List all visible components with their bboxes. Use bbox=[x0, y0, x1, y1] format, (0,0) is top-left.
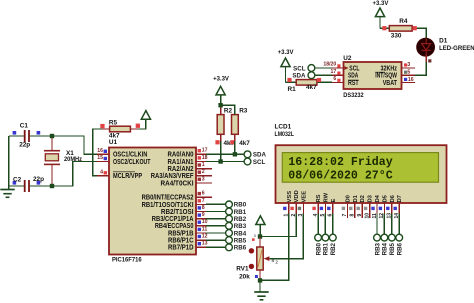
node: R3/SDA junction bbox=[233, 152, 237, 156]
svg-text:17: 17 bbox=[331, 69, 337, 75]
svg-text:08/06/2020 27°C: 08/06/2020 27°C bbox=[288, 170, 392, 183]
svg-text:D0: D0 bbox=[345, 195, 351, 202]
svg-text:10: 10 bbox=[202, 219, 208, 225]
pin 1 RA2/AN2 bbox=[168, 162, 213, 173]
ground (pot) bbox=[254, 292, 268, 300]
svg-text:4: 4 bbox=[100, 169, 103, 175]
svg-text:VSS: VSS bbox=[287, 191, 293, 203]
pin 6 label (U2 RST) bbox=[333, 76, 340, 82]
LCD pin names (rotated) bbox=[287, 190, 403, 202]
svg-text:RB5: RB5 bbox=[389, 242, 396, 255]
terminal SCL (DS3232) bbox=[293, 65, 315, 73]
RTC chip U2 DS3232 bbox=[343, 55, 401, 99]
svg-text:MCLR/VPP: MCLR/VPP bbox=[113, 173, 142, 180]
svg-text:RA2/AN2: RA2/AN2 bbox=[168, 166, 194, 173]
svg-text:RB2: RB2 bbox=[234, 216, 247, 223]
svg-text:RB0: RB0 bbox=[234, 202, 247, 209]
power +3.3V arrow (R2/R3) bbox=[213, 77, 229, 106]
power +3.3V arrow (DS3232 area) bbox=[278, 50, 294, 82]
svg-text:RB6/P1C: RB6/P1C bbox=[168, 238, 194, 245]
svg-text:RB4: RB4 bbox=[382, 242, 389, 255]
svg-text:LM032L: LM032L bbox=[275, 131, 295, 138]
terminal RB5 (PIC) bbox=[226, 237, 247, 245]
capacitor C2 bbox=[9, 176, 52, 192]
LED D1 LED-GREEN bbox=[417, 37, 474, 62]
svg-text:32KHz: 32KHz bbox=[381, 65, 398, 72]
svg-text:RB6: RB6 bbox=[397, 242, 404, 255]
svg-text:U1: U1 bbox=[109, 139, 118, 146]
svg-text:RB3: RB3 bbox=[234, 223, 247, 230]
terminal RB2 (PIC) bbox=[226, 215, 247, 223]
svg-text:7: 7 bbox=[202, 198, 205, 204]
node: R2/SCL junction bbox=[218, 159, 222, 163]
node: pot top junction bbox=[258, 234, 262, 238]
wire: R5 left to MCLR pin4 bbox=[93, 129, 102, 176]
wire: SDA terminal to U2 bbox=[315, 74, 332, 76]
svg-text:SCL: SCL bbox=[253, 159, 266, 166]
svg-text:DS3232: DS3232 bbox=[343, 92, 364, 99]
svg-text:VBAT: VBAT bbox=[383, 80, 398, 87]
terminal RB6 (PIC) bbox=[226, 244, 247, 252]
svg-text:RB5: RB5 bbox=[234, 237, 247, 244]
svg-text:1: 1 bbox=[202, 162, 205, 168]
svg-text:R3: R3 bbox=[239, 107, 248, 114]
svg-text:16:28:02 Friday: 16:28:02 Friday bbox=[288, 156, 392, 169]
svg-text:SDA: SDA bbox=[253, 152, 267, 159]
wire: R5 right to +3.3V arrow bbox=[138, 119, 146, 129]
svg-text:3: 3 bbox=[407, 62, 410, 68]
terminal RB5 (LCD D6) bbox=[388, 234, 396, 255]
svg-text:7: 7 bbox=[342, 214, 348, 217]
svg-text:D4: D4 bbox=[375, 194, 381, 202]
svg-text:6: 6 bbox=[202, 191, 205, 197]
pin 16 VBAT stub bbox=[402, 77, 416, 83]
svg-text:9: 9 bbox=[202, 212, 205, 218]
wire: pin18 to SCL terminal bbox=[206, 161, 244, 163]
terminal RB6 (LCD D7) bbox=[396, 234, 404, 255]
resistor R4 bbox=[380, 18, 417, 40]
svg-text:2: 2 bbox=[275, 259, 278, 264]
pin 12 RB6/P1C bbox=[168, 234, 208, 245]
svg-text:RB6: RB6 bbox=[234, 245, 247, 252]
svg-text:RB5/P1B: RB5/P1B bbox=[168, 230, 194, 237]
pin 11 RB5/P1B bbox=[168, 226, 207, 237]
svg-text:RW: RW bbox=[323, 192, 329, 202]
svg-text:D7: D7 bbox=[397, 195, 403, 202]
pin 16 OSC1/CLKIN bbox=[97, 148, 147, 159]
svg-text:RB4/ECCPAS0: RB4/ECCPAS0 bbox=[155, 223, 194, 230]
resistor R3 bbox=[230, 105, 250, 147]
svg-text:SCL: SCL bbox=[293, 65, 306, 72]
wire: R2 bottom to SCL row bbox=[220, 141, 222, 162]
svg-text:8: 8 bbox=[202, 205, 205, 211]
svg-text:12: 12 bbox=[202, 234, 208, 240]
svg-text:RB2/T1OSI: RB2/T1OSI bbox=[161, 209, 194, 216]
pin 10 RB4/ECCPAS0 bbox=[155, 219, 208, 230]
svg-text:VDD: VDD bbox=[294, 190, 300, 202]
svg-text:4k7: 4k7 bbox=[306, 84, 317, 91]
svg-text:RB4: RB4 bbox=[234, 230, 247, 237]
wires: LCD RS/RW/E and D4-D7 to terminals bbox=[318, 214, 399, 235]
svg-text:3: 3 bbox=[202, 176, 205, 182]
pin 5 INT/SQW bbox=[402, 70, 416, 76]
svg-text:OSC1/CLKIN: OSC1/CLKIN bbox=[113, 152, 147, 159]
svg-text:SCL: SCL bbox=[349, 65, 360, 72]
pin 13 RB7/P1D bbox=[168, 241, 208, 252]
svg-text:D1: D1 bbox=[353, 194, 359, 202]
pin 2 RA3/AN3/VREF bbox=[151, 169, 212, 180]
svg-text:D2: D2 bbox=[360, 195, 366, 202]
wire: pin5 to LED cathode bbox=[415, 62, 426, 75]
svg-text:VEE: VEE bbox=[301, 191, 307, 203]
svg-text:D3: D3 bbox=[368, 194, 374, 202]
pin 6 RB0/INT/ECCPAS2 bbox=[142, 191, 212, 202]
terminal RB1 (LCD RW) bbox=[322, 234, 330, 255]
LCD pin numbers (rotated) bbox=[284, 213, 400, 219]
terminal RB2 (LCD E) bbox=[329, 234, 337, 255]
svg-text:RB7/P1D: RB7/P1D bbox=[168, 245, 194, 252]
pin 17 RA0/AN0 bbox=[168, 148, 208, 159]
wire: SCL terminal to U2 bbox=[315, 67, 332, 69]
svg-text:18: 18 bbox=[202, 155, 208, 161]
svg-text:18/20: 18/20 bbox=[323, 62, 336, 68]
svg-text:RA3/AN3/VREF: RA3/AN3/VREF bbox=[151, 173, 194, 180]
ground (crystal circuit) bbox=[0, 190, 14, 198]
svg-text:R1: R1 bbox=[288, 86, 297, 93]
svg-text:2: 2 bbox=[202, 169, 205, 175]
svg-text:RA4/T0CKI: RA4/T0CKI bbox=[161, 180, 194, 187]
wires: RB pins to terminals bbox=[206, 204, 226, 247]
svg-text:D1: D1 bbox=[439, 37, 448, 44]
pin 18/20 label (U2 SCL) bbox=[323, 62, 340, 68]
wire: R3 bottom to SDA row bbox=[234, 141, 236, 154]
pin 18 RA1/AN1 bbox=[168, 155, 208, 166]
wire: LCD VSS down-left to pot bottom bbox=[260, 214, 289, 281]
svg-text:4k7: 4k7 bbox=[239, 140, 250, 147]
wire: pot bottom to ground bbox=[259, 280, 261, 292]
svg-text:3: 3 bbox=[254, 234, 256, 238]
svg-text:8: 8 bbox=[350, 214, 356, 217]
svg-text:+3.3V: +3.3V bbox=[372, 1, 388, 7]
svg-text:20k: 20k bbox=[239, 274, 250, 281]
svg-text:+3.3V: +3.3V bbox=[213, 77, 229, 83]
svg-text:15: 15 bbox=[97, 155, 103, 161]
svg-text:9: 9 bbox=[357, 214, 363, 217]
power +3.3V arrow (R4) bbox=[372, 1, 388, 29]
potentiometer RV1 20k bbox=[236, 234, 278, 281]
svg-text:C2: C2 bbox=[13, 177, 22, 184]
capacitor C1 bbox=[9, 122, 52, 148]
svg-text:RB1: RB1 bbox=[323, 242, 330, 255]
terminal SCL bbox=[244, 158, 265, 166]
resistor R2 bbox=[215, 105, 234, 147]
wire: crystal bottom to OSC2 pin15 bbox=[52, 162, 97, 187]
terminal RB3 (LCD D4) bbox=[374, 234, 382, 255]
terminal RB1 (PIC) bbox=[226, 208, 247, 216]
terminal RB0 (LCD RS) bbox=[315, 234, 323, 255]
terminal RB3 (PIC) bbox=[226, 222, 247, 230]
svg-text:SDA: SDA bbox=[292, 73, 306, 80]
svg-text:RA0/AN0: RA0/AN0 bbox=[168, 152, 194, 159]
terminal RB0 (PIC) bbox=[226, 201, 247, 209]
svg-text:RV1: RV1 bbox=[236, 266, 249, 273]
svg-text:R2: R2 bbox=[224, 107, 233, 114]
svg-text:RB1/T1OSO/T1CKI: RB1/T1OSO/T1CKI bbox=[142, 202, 194, 209]
wire: pin17 to SDA terminal bbox=[206, 153, 244, 155]
svg-text:LED-GREEN: LED-GREEN bbox=[439, 45, 474, 52]
LCD labels bbox=[275, 123, 295, 138]
terminal SDA (DS3232) bbox=[292, 72, 314, 80]
terminal RB4 (PIC) bbox=[226, 230, 247, 238]
pin 8 RB2/T1OSI bbox=[161, 205, 206, 216]
wire: LCD VDD down-left to pot top bbox=[260, 214, 296, 237]
svg-text:RB3/CCP1/P1A: RB3/CCP1/P1A bbox=[152, 216, 194, 223]
svg-text:D6: D6 bbox=[390, 194, 396, 202]
op: microcontroller U1 PIC16F716 bbox=[109, 139, 196, 264]
svg-text:C1: C1 bbox=[20, 122, 29, 129]
svg-text:6: 6 bbox=[333, 76, 336, 82]
wire: LCD VEE down-left to pot wiper bbox=[270, 214, 303, 259]
svg-text:22p: 22p bbox=[33, 176, 44, 183]
power +3.3V arrow (R5) bbox=[141, 111, 150, 120]
svg-text:RB3: RB3 bbox=[374, 242, 381, 255]
svg-text:D5: D5 bbox=[382, 194, 388, 202]
svg-text:INT/SQW: INT/SQW bbox=[375, 73, 397, 80]
svg-text:RB0/INT/ECCPAS2: RB0/INT/ECCPAS2 bbox=[142, 195, 194, 202]
svg-text:RA1/AN1: RA1/AN1 bbox=[168, 159, 194, 166]
svg-text:5: 5 bbox=[407, 70, 410, 76]
pin 9 RB3/CCP1/P1A bbox=[152, 212, 206, 223]
svg-text:R4: R4 bbox=[399, 18, 408, 25]
svg-text:SDA: SDA bbox=[348, 73, 358, 80]
LCD pin stubs bbox=[289, 203, 399, 218]
wire: crystal top to OSC1 pin16 bbox=[52, 136, 97, 154]
wire: left vertical from C1/C2 to ground bbox=[8, 136, 10, 189]
node: crystal top junction bbox=[50, 134, 54, 138]
pin 15 OSC2/CLKOUT bbox=[97, 155, 151, 166]
svg-text:17: 17 bbox=[202, 148, 208, 154]
svg-text:+3.3V: +3.3V bbox=[278, 50, 294, 56]
svg-text:RB1: RB1 bbox=[234, 209, 247, 216]
LCD pin squares bbox=[283, 207, 397, 210]
wire: R4 to LED anode bbox=[417, 28, 426, 38]
svg-text:330: 330 bbox=[391, 32, 402, 39]
pin 3 RA4/T0CKI bbox=[161, 176, 213, 187]
svg-text:OSC2/CLKOUT: OSC2/CLKOUT bbox=[113, 159, 151, 166]
resistor R5 bbox=[100, 120, 140, 140]
svg-text:RST: RST bbox=[348, 80, 359, 87]
svg-text:E: E bbox=[331, 199, 337, 203]
svg-text:RB2: RB2 bbox=[330, 242, 337, 255]
terminal RB4 (LCD D5) bbox=[381, 234, 389, 255]
node: crystal bottom junction bbox=[50, 184, 54, 188]
svg-text:RS: RS bbox=[316, 194, 322, 202]
power arrow (pot top) bbox=[256, 216, 265, 237]
svg-text:22p: 22p bbox=[19, 142, 30, 149]
wire: R2/R3 tops bbox=[221, 105, 235, 114]
terminal SDA bbox=[244, 151, 266, 159]
svg-text:PIC16F716: PIC16F716 bbox=[112, 257, 142, 264]
svg-text:11: 11 bbox=[202, 226, 208, 232]
crystal X1 bbox=[44, 136, 82, 186]
pin 7 RB1/T1OSO/T1CKI bbox=[142, 198, 206, 209]
svg-text:LCD1: LCD1 bbox=[275, 123, 292, 130]
svg-text:16: 16 bbox=[408, 77, 414, 83]
svg-text:16: 16 bbox=[97, 148, 103, 154]
LCD LM032L body bbox=[276, 145, 447, 203]
svg-text:10: 10 bbox=[364, 213, 370, 219]
pin 4 MCLR/VPP bbox=[97, 169, 142, 180]
svg-text:13: 13 bbox=[202, 241, 208, 247]
node: R2 top junction bbox=[218, 103, 222, 107]
pin 3 32KHz stub bbox=[402, 62, 416, 68]
svg-text:RB0: RB0 bbox=[315, 242, 322, 255]
node: pot bottom junction bbox=[258, 278, 262, 282]
svg-text:R5: R5 bbox=[109, 120, 118, 127]
pin 17 label (U2 SDA) bbox=[331, 69, 341, 75]
resistor R1 bbox=[286, 78, 344, 93]
